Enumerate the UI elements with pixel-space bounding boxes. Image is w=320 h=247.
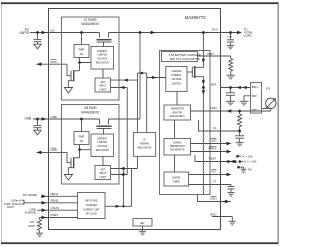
svg-text:TIMER: TIMER xyxy=(173,179,180,183)
svg-text:LIMIT: LIMIT xyxy=(28,224,35,228)
svg-text:TERMINATION: TERMINATION xyxy=(170,144,185,148)
svg-text:CONTROL: CONTROL xyxy=(171,81,181,85)
svg-text:Li+: Li+ xyxy=(266,87,270,91)
svg-text:GND: GND xyxy=(210,212,218,216)
svg-text:MAX8677C: MAX8677C xyxy=(185,15,207,20)
svg-text:USB: USB xyxy=(24,116,31,120)
svg-text:THM: THM xyxy=(210,106,217,110)
svg-text:4.7μF: 4.7μF xyxy=(227,37,233,39)
svg-text:(SEE FIGURE 7): (SEE FIGURE 7) xyxy=(169,114,185,118)
svg-text:PEN2: PEN2 xyxy=(51,198,59,202)
svg-text:LIMIT: LIMIT xyxy=(99,175,106,179)
svg-text:LOAD: LOAD xyxy=(244,34,253,38)
svg-text:CT: CT xyxy=(213,180,217,184)
svg-text:USUS: USUS xyxy=(51,206,59,210)
svg-text:CEN: CEN xyxy=(210,197,216,201)
svg-text:THERMISTOR: THERMISTOR xyxy=(170,107,184,111)
svg-text:LIMIT: LIMIT xyxy=(7,205,14,209)
svg-text:BAT+: BAT+ xyxy=(252,85,259,89)
svg-text:REGULATOR: REGULATOR xyxy=(96,148,109,152)
svg-text:UOK: UOK xyxy=(51,148,58,152)
svg-text:VL = 15%: VL = 15% xyxy=(242,154,253,158)
svg-text:MANAGEMENT: MANAGEMENT xyxy=(81,22,99,26)
svg-text:FLT: FLT xyxy=(211,170,216,174)
svg-text:INPUT AND: INPUT AND xyxy=(85,198,98,202)
svg-text:BAT-: BAT- xyxy=(252,94,258,98)
svg-text:AND MONITOR: AND MONITOR xyxy=(170,148,185,152)
svg-text:REGULATION: REGULATION xyxy=(138,145,152,149)
svg-text:SYS: SYS xyxy=(211,28,217,32)
svg-text:ADAPTER: ADAPTER xyxy=(20,31,30,35)
svg-text:N.C. = 10%: N.C. = 10% xyxy=(245,160,257,164)
svg-text:FSET: FSET xyxy=(209,157,217,161)
svg-text:SUSPEND: SUSPEND xyxy=(25,211,37,215)
svg-text:AND SYS LOAD SWITCH: AND SYS LOAD SWITCH xyxy=(170,57,200,61)
svg-text:ISET: ISET xyxy=(207,52,214,56)
svg-text:OK: OK xyxy=(80,52,84,56)
svg-text:CHARGE: CHARGE xyxy=(173,140,182,144)
svg-text:CHG: CHG xyxy=(210,139,217,143)
svg-text:CHARGER: CHARGER xyxy=(86,203,97,207)
svg-text:DOK: DOK xyxy=(51,60,58,64)
svg-text:DC MODE: DC MODE xyxy=(23,193,37,197)
svg-text:USB: USB xyxy=(51,115,57,119)
svg-text:PSET: PSET xyxy=(51,213,59,217)
svg-text:BAT: BAT xyxy=(211,83,217,87)
svg-text:PEN1: PEN1 xyxy=(51,192,59,196)
svg-text:SET LOGIC: SET LOGIC xyxy=(86,212,98,216)
svg-text:NTC: NTC xyxy=(252,108,258,112)
svg-text:MONITOR: MONITOR xyxy=(172,110,182,114)
svg-text:PRES: PRES xyxy=(208,147,216,151)
svg-text:VL: VL xyxy=(213,126,217,130)
svg-text:5%: 5% xyxy=(248,167,253,171)
svg-text:REGULATOR: REGULATOR xyxy=(96,60,109,64)
svg-text:OK: OK xyxy=(80,139,84,143)
svg-text:LIMIT: LIMIT xyxy=(99,87,106,91)
svg-text:MANAGEMENT: MANAGEMENT xyxy=(81,110,99,114)
svg-text:EP: EP xyxy=(141,221,145,225)
